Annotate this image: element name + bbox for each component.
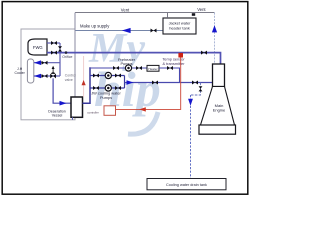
engine main engine xyxy=(199,64,236,134)
cooler J.H cooler xyxy=(27,59,33,83)
arrow into cooler bottom xyxy=(34,74,41,79)
vessel deaeration vessel xyxy=(48,97,82,117)
wire preheater branch xyxy=(90,67,147,69)
arrow makeup flow left xyxy=(122,28,131,33)
vent mark xyxy=(192,13,195,16)
svg-text:Engine: Engine xyxy=(213,108,226,113)
wire vessel to pump suction manifold xyxy=(83,67,91,103)
wire JW pumps merge connector xyxy=(124,76,126,89)
svg-text:Vent: Vent xyxy=(121,8,130,13)
sensor signal line (red) xyxy=(116,58,181,110)
wire JW pump branch upper xyxy=(90,75,125,77)
wire drain downcomer xyxy=(190,95,192,179)
wire main jacket line L1 xyxy=(47,53,221,64)
valve makeup xyxy=(151,29,157,33)
pump preheater xyxy=(125,65,131,71)
wire JW pump branch lower xyxy=(90,87,125,89)
system boundary box (gray) xyxy=(21,29,75,120)
valve FWG top xyxy=(51,41,57,45)
svg-text:header tank: header tank xyxy=(169,25,190,30)
wire engine drain branch xyxy=(191,83,201,96)
wire JH cooler top line xyxy=(34,62,60,64)
sensor temp element (red) xyxy=(178,53,183,58)
arrow into vessel xyxy=(60,101,67,106)
wire control valve to deaeration vessel xyxy=(53,78,71,103)
wire vent header line xyxy=(75,12,215,14)
svg-text:Cooler: Cooler xyxy=(14,71,25,75)
svg-text:Vessel: Vessel xyxy=(52,113,63,117)
valve JH top xyxy=(42,61,48,65)
svg-text:& transmitter: & transmitter xyxy=(162,61,185,66)
arrow into cooler top xyxy=(34,60,41,65)
wire FWG manifold vertical xyxy=(59,43,61,76)
valve preheater discharge xyxy=(136,66,142,70)
wire vent riser to engine xyxy=(214,13,216,64)
arrow flow right xyxy=(127,80,134,85)
arrow red up xyxy=(82,80,86,85)
svg-text:Vent: Vent xyxy=(197,7,206,12)
pump JW2 xyxy=(105,85,111,91)
svg-text:Pumps: Pumps xyxy=(100,95,112,100)
valve heater outlet xyxy=(167,66,173,70)
tank cooling water drain tank xyxy=(147,179,226,190)
valve L7 mid xyxy=(152,81,158,85)
arrow drain down xyxy=(188,99,193,106)
wire FWG top outlet xyxy=(47,42,60,44)
pump FWG fresh water generator xyxy=(28,39,47,55)
node junction L1 xyxy=(65,51,68,54)
svg-text:Orifice: Orifice xyxy=(62,55,72,59)
tank jacket water header tank xyxy=(163,18,196,34)
wire tank vent stub xyxy=(167,13,169,18)
arrow vent up xyxy=(212,25,217,32)
valve JW1 suction xyxy=(93,74,99,78)
wire vessel drain stub xyxy=(72,117,74,120)
valve JW1 discharge xyxy=(115,74,121,78)
valve JW2 suction xyxy=(93,86,99,90)
valve L1 engine xyxy=(201,51,207,55)
svg-text:J.H: J.H xyxy=(17,67,23,71)
arrow red signal left xyxy=(139,107,146,111)
valve preheater suction xyxy=(113,66,119,70)
svg-text:Heater: Heater xyxy=(148,67,157,71)
pump JW1 xyxy=(105,72,111,78)
valve drain (vertical) xyxy=(199,86,203,91)
wire vent pink riser from vessel xyxy=(83,56,85,97)
heater box xyxy=(147,65,159,71)
wire heater outlet xyxy=(159,68,180,83)
border frame xyxy=(2,2,248,195)
valve JH bottom xyxy=(42,74,48,78)
valve control valve 3way xyxy=(50,66,56,79)
valve FWG bottom xyxy=(51,51,57,55)
svg-text:controller: controller xyxy=(87,110,99,114)
wire makeup supply line xyxy=(75,30,163,32)
controller box (red) xyxy=(104,106,116,116)
wire engine inlet line L7 xyxy=(125,82,213,84)
valve JW2 discharge xyxy=(115,86,121,90)
svg-text:valve: valve xyxy=(65,78,73,82)
svg-text:Make up supply: Make up supply xyxy=(80,24,110,29)
valve L7 engine xyxy=(192,81,198,85)
wire JH cooler bottom line xyxy=(34,75,60,77)
wire vent/makeup riser xyxy=(74,13,76,97)
svg-text:Cooling water drain tank: Cooling water drain tank xyxy=(166,183,207,187)
valve orifice (vertical) xyxy=(58,46,62,51)
svg-text:FWG: FWG xyxy=(33,45,43,50)
